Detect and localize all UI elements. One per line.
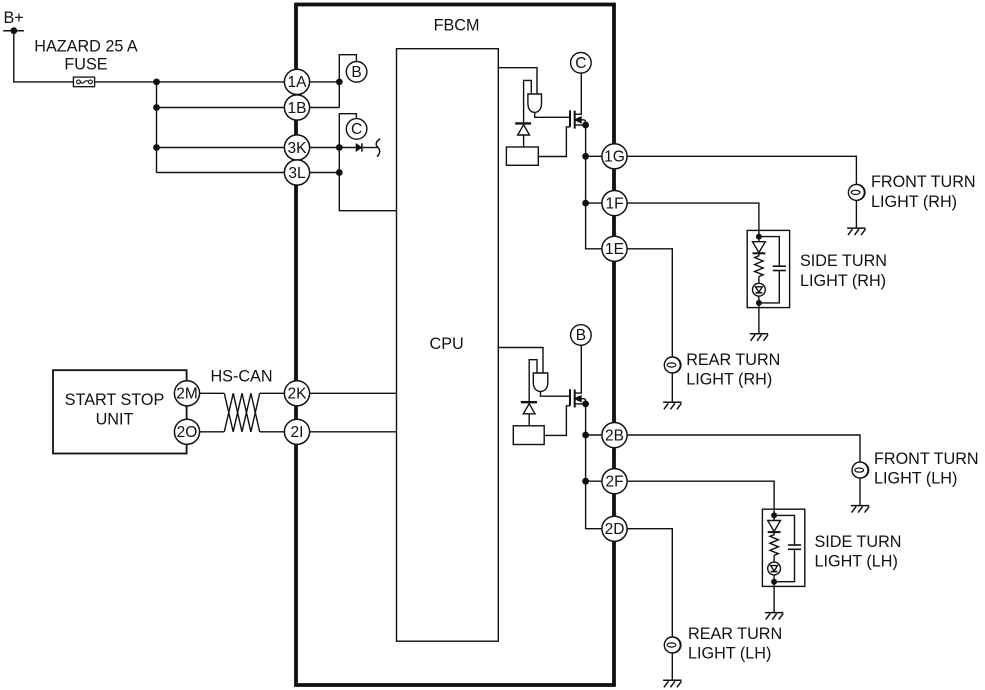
svg-text:1F: 1F xyxy=(605,195,623,212)
svg-text:SIDE TURN: SIDE TURN xyxy=(815,533,902,551)
MOSFET Q2 source xyxy=(575,403,586,405)
svg-text:LIGHT (RH): LIGHT (RH) xyxy=(800,272,886,290)
node dot 3K bus xyxy=(336,144,343,151)
svg-text:2O: 2O xyxy=(177,424,198,441)
wire zener feedback to gate input xyxy=(524,80,532,122)
rear turn light LH bulb xyxy=(664,637,681,653)
svg-text:2M: 2M xyxy=(176,386,198,403)
svg-text:3K: 3K xyxy=(288,140,308,157)
wire 2M to twisted pair xyxy=(180,392,224,394)
START STOP UNIT pin 2O xyxy=(174,419,199,444)
MOSFET Q2 gate xyxy=(569,389,571,406)
svg-text:FBCM: FBCM xyxy=(434,17,480,35)
wire 1G to front turn light RH xyxy=(586,156,857,184)
FBCM pin 3K xyxy=(284,135,309,160)
ground side light xyxy=(750,334,768,341)
svg-text:FRONT TURN: FRONT TURN xyxy=(874,450,979,468)
diode on 3K branch xyxy=(356,143,377,151)
MOSFET Q2 body arrow xyxy=(575,396,581,401)
LH output driver block (high-side smart FET) xyxy=(498,345,602,528)
inner bus 3K/3L with bracket to connector C, into CPU xyxy=(339,114,396,211)
wire control block to gate xyxy=(544,406,570,436)
wire gate output to MOSFET gate xyxy=(541,392,571,397)
wire to 3K xyxy=(157,147,357,149)
wire 2I to CPU xyxy=(260,431,397,433)
driver AND gate U2 xyxy=(533,372,548,391)
LED arrow diode xyxy=(753,242,766,253)
ground rear RH xyxy=(663,402,681,409)
junction dots on left bus xyxy=(153,79,160,86)
wire CPU to driver gate input xyxy=(498,348,543,374)
MOSFET Q1 channel xyxy=(574,111,576,129)
svg-text:1B: 1B xyxy=(288,100,307,117)
wire 1E to rear turn light RH xyxy=(602,249,672,357)
svg-text:REAR TURN: REAR TURN xyxy=(686,351,780,369)
wire B+ to fuse xyxy=(14,31,74,82)
svg-text:1E: 1E xyxy=(605,241,624,258)
source node dot xyxy=(582,401,589,408)
svg-text:HS-CAN: HS-CAN xyxy=(210,367,272,385)
wire to 1B xyxy=(157,107,340,109)
wire CPU to driver gate input xyxy=(498,68,537,94)
capacitor branch xyxy=(759,237,779,267)
svg-text:1A: 1A xyxy=(288,74,308,91)
svg-text:SIDE TURN: SIDE TURN xyxy=(800,252,887,270)
svg-text:2B: 2B xyxy=(605,427,624,444)
control block xyxy=(506,147,538,165)
connector circle B xyxy=(346,62,367,83)
svg-text:START STOP: START STOP xyxy=(65,391,165,409)
START STOP UNIT box xyxy=(53,370,187,453)
svg-text:FUSE: FUSE xyxy=(64,56,107,74)
svg-text:LIGHT (RH): LIGHT (RH) xyxy=(871,193,957,211)
front turn light RH bulb xyxy=(848,184,865,200)
svg-text:2D: 2D xyxy=(605,521,625,538)
wire 2B to front turn light LH xyxy=(586,435,860,462)
FBCM pin 1B xyxy=(284,95,309,120)
zener diode D1 xyxy=(515,122,531,124)
RH output driver block (high-side smart FET) xyxy=(498,68,602,249)
FBCM pin 1G xyxy=(602,144,627,169)
inner bus 1A/1B with bracket to connector B xyxy=(339,55,356,108)
wire 2F to side turn light LH xyxy=(586,481,775,509)
svg-text:REAR TURN: REAR TURN xyxy=(688,625,782,643)
FBCM pin 1A xyxy=(284,69,309,94)
FBCM pin 2K xyxy=(284,381,309,406)
node dot 3L bus xyxy=(336,169,343,176)
svg-text:2F: 2F xyxy=(605,474,623,491)
svg-text:B+: B+ xyxy=(4,9,24,27)
svg-text:1G: 1G xyxy=(604,149,625,166)
output bus to pins 2B 2F 2D xyxy=(586,404,602,529)
driver AND gate U1 xyxy=(528,93,542,112)
MOSFET Q1 body arrow xyxy=(575,117,581,122)
wire-break squiggle xyxy=(376,139,380,157)
FBCM pin 1E xyxy=(602,236,627,261)
source node dot xyxy=(582,122,589,129)
wire control block to gate xyxy=(538,127,570,157)
MOSFET Q2 channel xyxy=(574,390,576,408)
MOSFET Q1 gate xyxy=(569,110,571,127)
START STOP UNIT pin 2M xyxy=(174,381,199,406)
svg-text:C: C xyxy=(351,121,362,138)
FBCM pin 1F xyxy=(602,191,627,216)
svg-text:CPU: CPU xyxy=(430,335,464,353)
wire 2K to CPU xyxy=(260,392,397,394)
side turn light LH unit xyxy=(762,509,804,619)
svg-text:FRONT TURN: FRONT TURN xyxy=(871,173,976,191)
ground rear LH xyxy=(663,680,681,687)
output bus to pins 1G 1F 1E xyxy=(586,125,602,249)
MOSFET Q1 source xyxy=(575,124,586,126)
svg-text:LIGHT (LH): LIGHT (LH) xyxy=(815,553,898,571)
wire branch bus left xyxy=(156,82,158,173)
MOSFET Q1 drain xyxy=(575,73,582,114)
connector circle C (RH driver supply) xyxy=(571,53,592,74)
svg-text:LIGHT (LH): LIGHT (LH) xyxy=(688,645,771,663)
FBCM pin 2I xyxy=(284,419,309,444)
wire 2O to twisted pair xyxy=(180,431,224,433)
fuse HAZARD 25 A FUSE xyxy=(34,38,138,87)
FBCM pin 3L xyxy=(284,160,309,185)
svg-text:C: C xyxy=(575,55,586,72)
control block xyxy=(513,426,544,445)
wire zener feedback to gate input xyxy=(529,360,537,401)
wire 1F to side turn light RH xyxy=(586,203,759,230)
svg-text:LIGHT (RH): LIGHT (RH) xyxy=(686,370,772,388)
rear turn light RH bulb xyxy=(664,357,681,373)
CPU box xyxy=(397,49,499,642)
svg-text:B: B xyxy=(351,64,361,81)
FBCM pin 2D xyxy=(602,516,627,541)
svg-text:2I: 2I xyxy=(291,424,304,441)
FBCM pin 2F xyxy=(602,469,627,494)
svg-text:LIGHT (LH): LIGHT (LH) xyxy=(874,470,957,488)
zener diode D2 xyxy=(521,401,537,403)
svg-text:UNIT: UNIT xyxy=(96,410,134,428)
connector circle C xyxy=(346,119,367,140)
svg-text:HAZARD 25 A: HAZARD 25 A xyxy=(34,38,138,56)
svg-text:3L: 3L xyxy=(288,165,306,182)
wire 2D to rear turn light LH xyxy=(602,529,672,637)
LED lamp xyxy=(753,283,766,296)
wire fuse to pin 1A xyxy=(95,81,340,83)
svg-text:B: B xyxy=(576,327,586,344)
MOSFET Q2 drain xyxy=(575,345,582,393)
wire gate output to MOSFET gate xyxy=(535,112,570,117)
resistor xyxy=(755,253,763,276)
twisted pair HS-CAN xyxy=(224,393,259,432)
svg-text:2K: 2K xyxy=(288,386,308,403)
wire to 3L xyxy=(157,172,340,174)
node dot 1A bus xyxy=(336,79,343,86)
FBCM module box xyxy=(296,5,614,686)
ground front LH xyxy=(851,506,869,513)
battery positive terminal B+ xyxy=(3,9,24,34)
FBCM pin 2B xyxy=(602,423,627,448)
front turn light LH bulb xyxy=(852,462,869,478)
connector circle B (LH driver supply) xyxy=(571,325,592,346)
side turn light RH unit xyxy=(747,230,789,340)
ground front RH xyxy=(847,228,865,235)
